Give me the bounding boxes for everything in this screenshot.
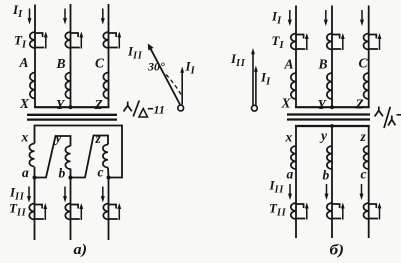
svg-text:Z: Z: [355, 97, 364, 112]
svg-text:a: a: [287, 167, 294, 182]
svg-text:x: x: [21, 130, 29, 145]
svg-text:B: B: [318, 57, 328, 72]
svg-text:11: 11: [154, 103, 165, 117]
svg-text:c: c: [98, 165, 104, 180]
svg-text:X: X: [281, 96, 292, 111]
svg-text:y: y: [319, 128, 328, 143]
svg-text:y: y: [54, 130, 63, 145]
svg-text:B: B: [56, 56, 66, 71]
svg-text:б): б): [330, 243, 345, 259]
svg-text:z: z: [360, 129, 367, 144]
svg-text:b: b: [323, 168, 330, 183]
svg-text:30°: 30°: [147, 60, 165, 74]
svg-text:X: X: [19, 96, 30, 111]
svg-text:C: C: [359, 56, 369, 71]
svg-text:C: C: [95, 56, 105, 71]
svg-text:c: c: [361, 167, 367, 182]
svg-text:а): а): [74, 242, 88, 258]
svg-text:a: a: [22, 165, 29, 180]
svg-text:Z: Z: [94, 97, 103, 112]
svg-text:A: A: [19, 55, 29, 70]
svg-text:A: A: [284, 57, 294, 72]
svg-text:x: x: [285, 130, 293, 145]
svg-text:z: z: [95, 131, 102, 146]
svg-text:b: b: [59, 166, 66, 181]
